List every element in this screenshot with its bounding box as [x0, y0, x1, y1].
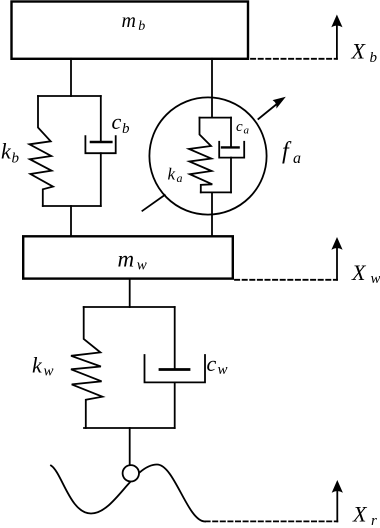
svg-text:k: k [32, 353, 43, 378]
damper cb piston plate [91, 141, 111, 144]
damper cw piston plate [160, 368, 189, 371]
svg-text:w: w [218, 362, 228, 378]
svg-text:b: b [12, 151, 20, 167]
svg-text:k: k [1, 139, 12, 164]
ka-ca top bar [200, 117, 232, 119]
arrow Xr shaft [336, 491, 338, 522]
label X_w [351, 260, 380, 287]
arrow Xb head [331, 15, 342, 28]
wire ca cylinder to bottom bar [230, 158, 232, 193]
svg-text:r: r [371, 513, 377, 528]
contact wheel [123, 465, 139, 481]
dashed datum line Xb [251, 58, 337, 60]
dashed datum line Xw [235, 279, 337, 281]
force arrow fa head [273, 97, 286, 109]
label c_w [207, 351, 228, 378]
kb-cb bottom bar [43, 205, 101, 207]
damper ca piston plate [222, 146, 239, 148]
label X_r [352, 502, 377, 528]
svg-text:k: k [168, 165, 176, 184]
svg-text:f: f [282, 139, 292, 165]
mass mb [12, 2, 249, 59]
svg-text:X: X [351, 260, 367, 285]
arrow Xr head [332, 480, 343, 493]
label k_a [168, 165, 183, 186]
svg-text:b: b [370, 50, 378, 66]
svg-text:a: a [244, 125, 250, 137]
svg-text:a: a [293, 150, 301, 167]
svg-text:a: a [177, 171, 183, 185]
actuator circle U1 [149, 97, 266, 214]
svg-text:w: w [371, 271, 380, 287]
kw-cw bottom bar [84, 427, 175, 429]
road profile curve [51, 465, 205, 522]
spring ka [189, 118, 212, 193]
wire mb to kb-cb top [70, 59, 72, 96]
arrow Xw shaft [336, 248, 338, 280]
spring kb [29, 96, 53, 206]
svg-text:b: b [138, 19, 145, 34]
damper cb piston rod [100, 96, 102, 142]
svg-text:X: X [352, 502, 368, 527]
svg-text:X: X [351, 39, 367, 64]
svg-text:m: m [118, 246, 135, 271]
spring kw [71, 307, 102, 428]
svg-text:c: c [207, 351, 217, 376]
wire actuator to mw [211, 192, 213, 236]
damper cw piston rod [174, 307, 176, 369]
arrow Xb shaft [336, 25, 338, 59]
wire kw-cw to contact wheel [129, 428, 131, 465]
svg-text:m: m [122, 10, 136, 32]
kw-cw top bar [84, 306, 175, 308]
wire cb cylinder to bottom bar [100, 153, 102, 206]
svg-text:w: w [44, 364, 54, 380]
damper cw cylinder [145, 355, 206, 382]
label X_b [351, 39, 378, 66]
dashed datum line Xr [206, 520, 338, 522]
mass mw [23, 236, 233, 278]
label f_a [282, 139, 301, 168]
actuator adjustment stub [142, 195, 164, 211]
damper cb cylinder [85, 136, 115, 153]
svg-text:w: w [137, 257, 147, 273]
svg-text:c: c [112, 109, 122, 134]
kb-cb top bar [38, 95, 101, 97]
label m_w [118, 246, 147, 273]
svg-text:b: b [122, 121, 130, 137]
damper ca piston rod [230, 118, 232, 147]
ka-ca bottom bar [201, 191, 231, 193]
wire kb-cb to mw [70, 206, 72, 236]
label c_a [236, 119, 250, 137]
label c_b [112, 109, 131, 137]
label m_b [122, 10, 146, 34]
wire mw to kw-cw top [129, 279, 131, 307]
wire mb to actuator block [211, 59, 213, 118]
arrow Xw head [331, 237, 342, 250]
wire cw cylinder to bottom bar [174, 382, 176, 428]
damper ca cylinder [219, 142, 244, 158]
label k_w [32, 353, 54, 380]
label k_b [1, 139, 20, 167]
svg-text:c: c [236, 119, 243, 135]
force arrow fa shaft [258, 100, 281, 119]
